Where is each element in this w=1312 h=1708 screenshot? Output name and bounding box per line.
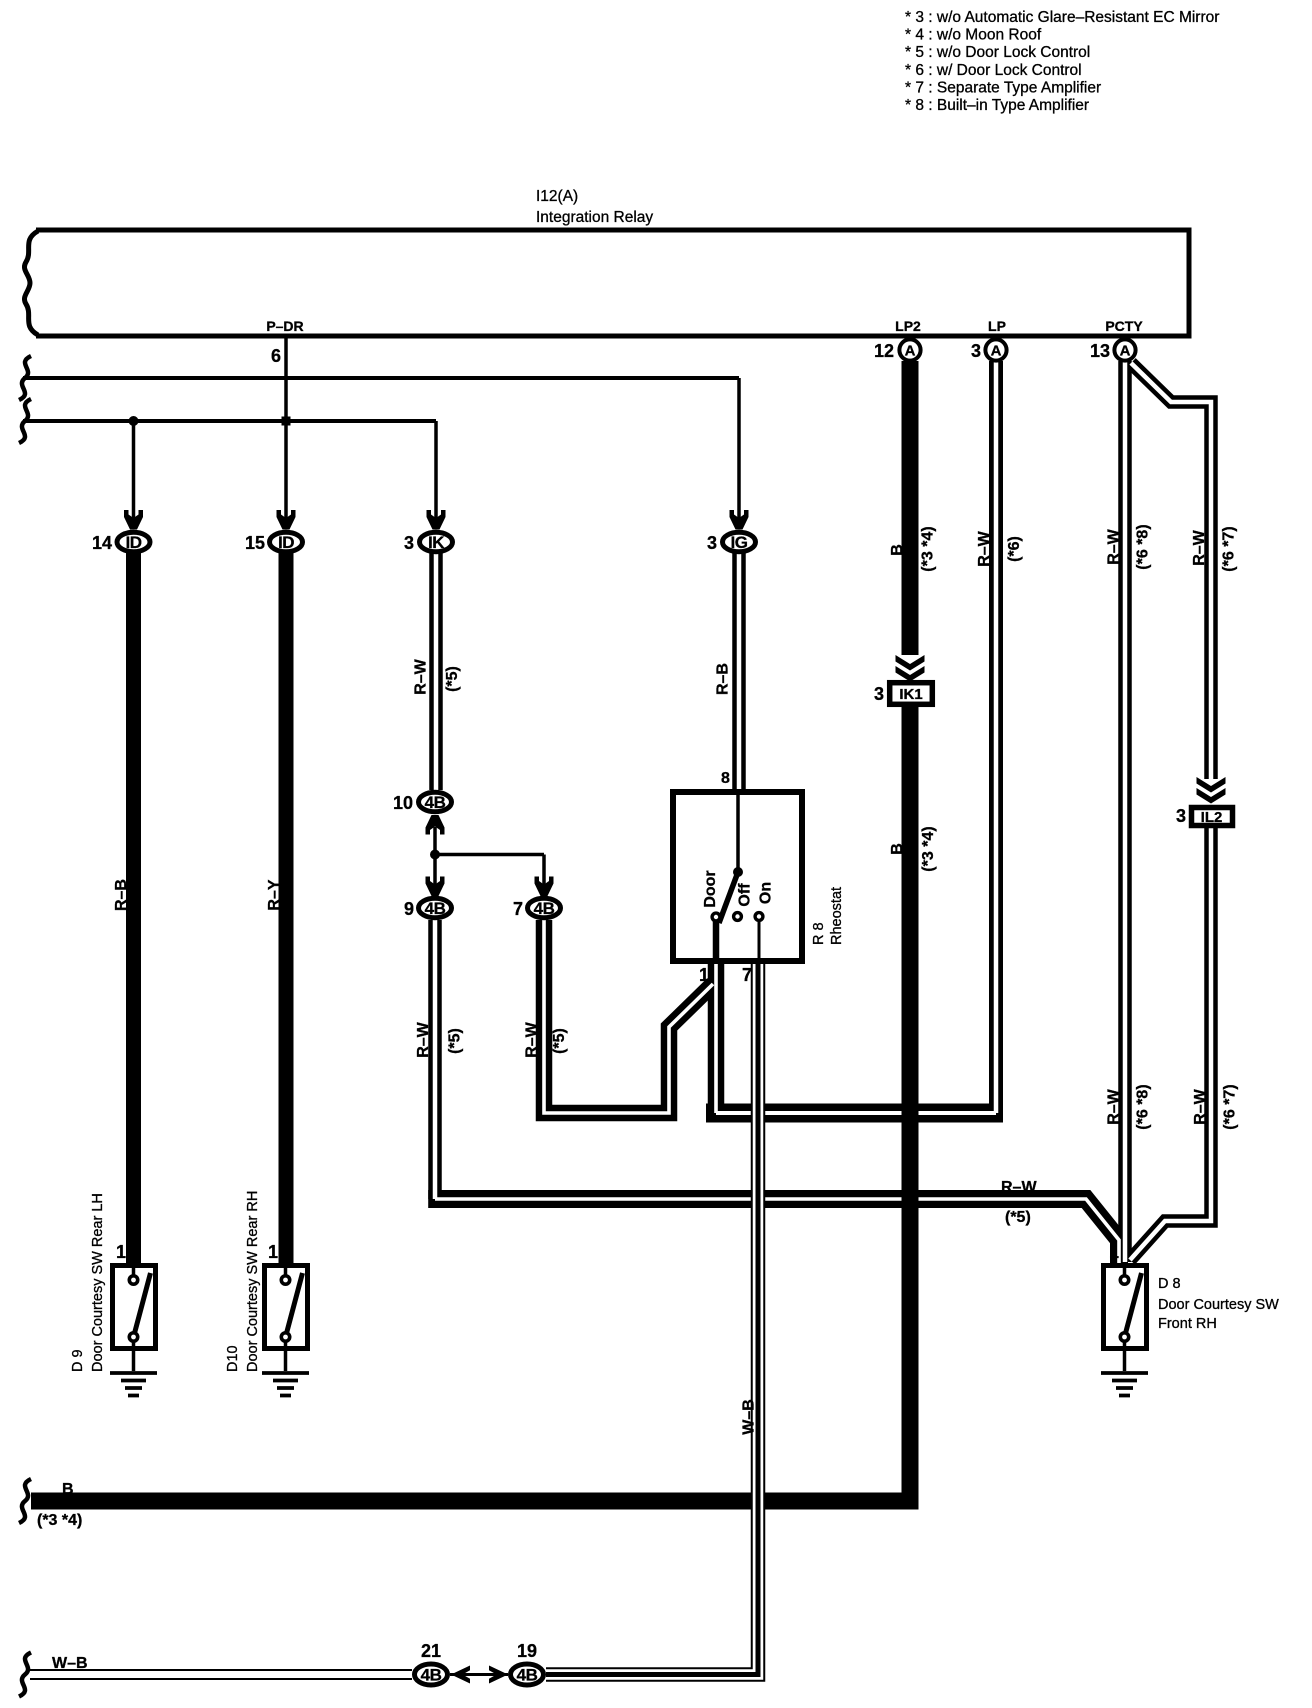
- svg-text:On: On: [758, 882, 775, 904]
- svg-text:Off: Off: [737, 883, 754, 907]
- svg-text:Door Courtesy SW Rear LH: Door Courtesy SW Rear LH: [90, 1193, 106, 1372]
- svg-text:1: 1: [116, 1242, 126, 1262]
- svg-text:(*6 *7): (*6 *7): [1222, 1084, 1239, 1129]
- svg-text:1: 1: [268, 1242, 278, 1262]
- svg-text:Front RH: Front RH: [1158, 1316, 1217, 1332]
- svg-text:Door Courtesy SW: Door Courtesy SW: [1158, 1297, 1279, 1313]
- svg-text:* 3 : w/o Automatic Glare–Resi: * 3 : w/o Automatic Glare–Resistant EC M…: [905, 9, 1219, 26]
- svg-text:R–W: R–W: [1191, 529, 1208, 565]
- svg-text:(*6 *8): (*6 *8): [1135, 524, 1152, 569]
- svg-text:9: 9: [404, 899, 414, 919]
- svg-text:4B: 4B: [421, 1666, 442, 1685]
- svg-text:R–B: R–B: [715, 663, 732, 695]
- svg-text:6: 6: [271, 346, 281, 366]
- svg-text:3: 3: [1176, 806, 1186, 826]
- svg-text:Integration Relay: Integration Relay: [536, 209, 653, 226]
- svg-text:A: A: [905, 343, 916, 360]
- svg-text:R–B: R–B: [113, 879, 130, 911]
- svg-text:R–W: R–W: [1192, 1088, 1209, 1124]
- svg-text:3: 3: [874, 684, 884, 704]
- svg-text:3: 3: [707, 533, 717, 553]
- svg-text:7: 7: [742, 965, 752, 985]
- svg-text:7: 7: [513, 899, 523, 919]
- svg-text:* 8 : Built–in Type Amplifier: * 8 : Built–in Type Amplifier: [905, 97, 1089, 114]
- svg-text:IK1: IK1: [899, 686, 922, 703]
- svg-text:3: 3: [404, 533, 414, 553]
- svg-text:Door: Door: [702, 870, 719, 907]
- svg-text:12: 12: [874, 341, 894, 361]
- svg-text:D 8: D 8: [1158, 1276, 1181, 1292]
- svg-text:D 9: D 9: [70, 1349, 86, 1372]
- svg-text:IG: IG: [731, 533, 748, 552]
- svg-text:I12(A): I12(A): [536, 188, 578, 205]
- svg-text:(*6): (*6): [1006, 536, 1023, 562]
- svg-text:R 8: R 8: [811, 922, 827, 945]
- svg-text:1: 1: [699, 965, 709, 985]
- svg-text:(*5): (*5): [551, 1028, 568, 1054]
- svg-text:LP2: LP2: [895, 318, 921, 334]
- svg-text:4B: 4B: [425, 899, 446, 918]
- svg-text:15: 15: [245, 533, 265, 553]
- svg-text:Door Courtesy SW Rear RH: Door Courtesy SW Rear RH: [245, 1191, 261, 1372]
- svg-text:R–W: R–W: [1106, 528, 1123, 564]
- svg-text:4B: 4B: [534, 899, 555, 918]
- svg-text:* 4 : w/o Moon Roof: * 4 : w/o Moon Roof: [905, 27, 1042, 44]
- svg-text:* 5 : w/o Door Lock Control: * 5 : w/o Door Lock Control: [905, 44, 1090, 61]
- svg-text:(*3 *4): (*3 *4): [920, 826, 937, 871]
- svg-text:14: 14: [92, 533, 112, 553]
- svg-text:D10: D10: [225, 1345, 241, 1372]
- svg-text:* 6 : w/ Door Lock Control: * 6 : w/ Door Lock Control: [905, 62, 1082, 79]
- svg-text:R–W: R–W: [1001, 1179, 1037, 1196]
- svg-text:1: 1: [1109, 1242, 1119, 1262]
- svg-text:21: 21: [421, 1641, 441, 1661]
- svg-text:R–W: R–W: [524, 1021, 541, 1057]
- svg-text:B: B: [62, 1481, 74, 1498]
- svg-text:4B: 4B: [425, 793, 446, 812]
- svg-text:10: 10: [393, 793, 413, 813]
- svg-text:IL2: IL2: [1201, 809, 1223, 826]
- svg-text:R–W: R–W: [413, 658, 430, 694]
- svg-text:13: 13: [1090, 341, 1110, 361]
- svg-text:ID: ID: [278, 533, 294, 552]
- svg-text:R–W: R–W: [1106, 1088, 1123, 1124]
- svg-text:A: A: [991, 343, 1002, 360]
- svg-text:P–DR: P–DR: [266, 318, 303, 334]
- svg-text:IK: IK: [428, 533, 445, 552]
- svg-text:3: 3: [971, 341, 981, 361]
- svg-text:(*6 *8): (*6 *8): [1135, 1084, 1152, 1129]
- svg-text:(*6 *7): (*6 *7): [1221, 526, 1238, 571]
- svg-text:B: B: [889, 544, 906, 556]
- svg-text:R–W: R–W: [415, 1021, 432, 1057]
- svg-text:LP: LP: [988, 318, 1006, 334]
- svg-text:W–B: W–B: [52, 1655, 88, 1672]
- svg-text:A: A: [1120, 343, 1131, 360]
- svg-text:PCTY: PCTY: [1105, 318, 1143, 334]
- svg-text:R–Y: R–Y: [266, 879, 283, 910]
- svg-text:(*3 *4): (*3 *4): [37, 1512, 82, 1529]
- svg-text:(*5): (*5): [447, 1028, 464, 1054]
- svg-text:* 7 : Separate Type Amplifier: * 7 : Separate Type Amplifier: [905, 79, 1101, 96]
- svg-text:Rheostat: Rheostat: [829, 887, 845, 945]
- svg-text:ID: ID: [126, 533, 142, 552]
- svg-text:(*5): (*5): [444, 666, 461, 692]
- svg-text:8: 8: [721, 770, 730, 787]
- svg-text:19: 19: [517, 1641, 537, 1661]
- svg-text:B: B: [889, 843, 906, 855]
- svg-text:R–W: R–W: [976, 530, 993, 566]
- svg-text:4B: 4B: [517, 1666, 538, 1685]
- svg-text:W–B: W–B: [741, 1399, 758, 1435]
- svg-text:(*5): (*5): [1005, 1209, 1031, 1226]
- svg-text:(*3 *4): (*3 *4): [920, 526, 937, 571]
